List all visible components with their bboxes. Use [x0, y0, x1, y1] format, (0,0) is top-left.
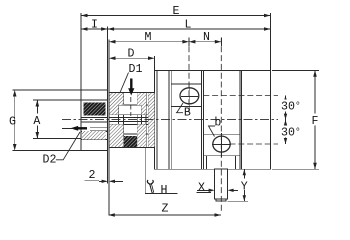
Y ext bottom [228, 200, 248, 202]
mid section right column hatch [148, 93, 154, 147]
ext M left [108, 40, 110, 93]
port B centerline [188, 38, 190, 113]
Y dim line [243, 169, 245, 201]
lower cavity wall left [123, 124, 125, 136]
cavity walls [118, 105, 120, 115]
mid section cavity bottom line [109, 114, 155, 116]
segment joint 3a [239, 70, 241, 169]
Z arrows [108, 213, 115, 217]
svg-text:I: I [91, 19, 98, 32]
mid section port shelf line [109, 104, 155, 106]
fitting bore top line [81, 116, 108, 118]
dim line I / L [81, 28, 271, 30]
lower cavity wall right [136, 124, 138, 136]
G ext bottom [12, 150, 81, 152]
port b / drain shaft centerline [220, 38, 222, 212]
F arrows [313, 70, 317, 77]
mid section top-left shoulder hatch [110, 93, 119, 115]
seal rows [109, 117, 155, 119]
mid section top-right shoulder hatch [141, 93, 146, 115]
port B projection line [203, 95, 278, 97]
D2 arrow tail line [62, 127, 72, 129]
segment joint 1b [170, 70, 172, 169]
label Y [240, 179, 250, 194]
port b boss [203, 133, 240, 135]
tube/A ext top [33, 99, 81, 101]
D2 flow arrow [70, 126, 78, 131]
dim line D [109, 57, 155, 59]
flange outline [81, 90, 108, 151]
main axis centerline [62, 119, 278, 121]
segment joint 3b [241, 70, 243, 169]
I arrows [81, 27, 88, 31]
flange bottom hatch band [82, 131, 106, 140]
label A [32, 114, 43, 129]
Y arrows [243, 169, 246, 175]
30deg arrows [284, 96, 287, 102]
svg-text:A: A [33, 115, 40, 128]
G arrows [13, 90, 17, 97]
svg-text:2: 2 [89, 169, 96, 182]
segment joint 2b [202, 70, 204, 169]
dim line E [81, 15, 271, 17]
D2 leader [56, 132, 80, 160]
E arrows [81, 14, 88, 18]
A arrows [36, 100, 40, 107]
tick at N right [220, 38, 222, 47]
D1 port bore walls [123, 93, 125, 106]
mid section lower-left column hatch [110, 124, 124, 147]
mid section outline [109, 93, 155, 148]
X dim lines [197, 189, 209, 191]
A dim line [36, 100, 38, 139]
port b projection line [230, 143, 279, 145]
main cylinder outline [155, 70, 271, 169]
mid section top band right of port [137, 93, 141, 105]
mid section lower shelf line [109, 133, 155, 135]
ring pair inside mid section [145, 93, 147, 148]
H leader [144, 148, 146, 194]
D1 leader [120, 73, 129, 94]
svg-text:D1: D1 [129, 63, 143, 76]
b leader [209, 126, 216, 137]
segment joint 1a [168, 70, 170, 169]
flange top nut dark block [84, 103, 106, 116]
port B boss [171, 83, 201, 85]
fitting bore bottom line [81, 131, 108, 133]
L arrows [108, 27, 115, 31]
ext line I/L middle [107, 27, 109, 91]
F ext top/bottom [272, 69, 319, 71]
30deg dim lines [285, 96, 287, 120]
X arrows [209, 189, 215, 192]
svg-text:E: E [173, 5, 180, 18]
flange thread line upper [90, 126, 108, 128]
2 arrows [102, 180, 108, 183]
bottom shaft [215, 169, 228, 199]
ext line right E/L [270, 13, 272, 70]
Z dim line [108, 214, 221, 216]
svg-text:G: G [9, 116, 16, 129]
port D1 centerline [130, 97, 132, 116]
mid section top band left of port [119, 93, 124, 105]
tube/A ext bottom [33, 138, 81, 140]
svg-text:D: D [128, 48, 135, 61]
label F [310, 114, 321, 129]
flange thread line lower [90, 129, 108, 131]
svg-text:N: N [203, 31, 210, 44]
svg-text:b: b [214, 117, 221, 130]
bottom dark block [124, 136, 138, 147]
svg-text:H: H [161, 184, 168, 197]
D1 flow arrow [128, 79, 134, 96]
svg-text:Y: Y [241, 181, 248, 194]
D arrows [109, 56, 116, 60]
F dim line [314, 70, 316, 169]
2-step ext lines [107, 151, 109, 184]
port b circle [213, 136, 230, 152]
tick at M/N junction [188, 38, 190, 47]
M arrows [109, 40, 116, 44]
G ext top [12, 89, 81, 91]
svg-text:30°: 30° [281, 101, 301, 114]
svg-text:D2: D2 [43, 154, 57, 167]
svg-text:30°: 30° [281, 127, 301, 140]
B leader [176, 103, 183, 113]
G dim line [14, 90, 16, 151]
fitting tube outer top line [81, 99, 108, 101]
ext line left E/I [80, 13, 82, 90]
segment joint 2a [200, 70, 202, 169]
label 30deg upper [280, 100, 301, 114]
label 30deg lower [280, 126, 301, 140]
svg-text:M: M [145, 31, 152, 44]
svg-text:F: F [312, 115, 319, 128]
mid section lower-right column hatch [137, 124, 146, 147]
svg-text:B: B [184, 106, 191, 119]
port B circle [180, 88, 199, 104]
flange lower hatch bottom line [81, 139, 108, 141]
fitting bore inner line [81, 121, 108, 123]
svg-text:X: X [198, 182, 205, 195]
N arrows [189, 40, 196, 44]
dim line M / N [109, 41, 221, 43]
drain boss [206, 156, 208, 170]
svg-text:L: L [185, 19, 192, 32]
ext D right [154, 56, 156, 93]
svg-text:Z: Z [162, 203, 169, 216]
cylinder inner left wall [156, 70, 158, 169]
